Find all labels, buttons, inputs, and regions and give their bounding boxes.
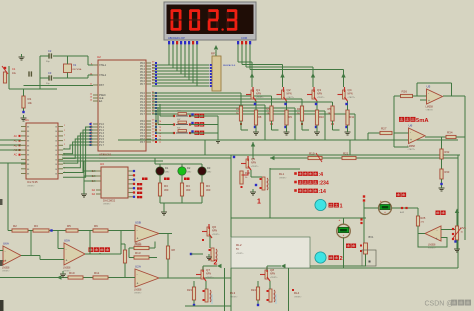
svg-text:<TEXT>: <TEXT> [251,165,259,168]
svg-text:NPN: NPN [317,93,322,96]
svg-text:X1: X1 [73,63,77,67]
svg-text:-: - [410,130,411,134]
svg-text:IN: IN [3,260,6,263]
svg-text:Q5: Q5 [251,157,255,161]
svg-text:R8: R8 [172,248,176,252]
svg-text:U2: U2 [97,55,101,59]
svg-text:R26: R26 [402,90,408,94]
svg-text:2: 2 [64,144,65,146]
svg-text:R24: R24 [251,288,256,292]
svg-text:ICL7135: ICL7135 [27,180,38,184]
svg-text:R19: R19 [309,152,315,156]
svg-text:LM358: LM358 [2,267,10,270]
svg-text:<TEXT>: <TEXT> [2,270,10,273]
svg-text:LM358: LM358 [408,145,416,148]
svg-text:U2A: U2A [135,265,141,269]
svg-text:<TEXT>: <TEXT> [27,185,35,188]
svg-text:2: 2 [64,130,65,132]
svg-text:U5A: U5A [64,239,70,243]
svg-text:300: 300 [186,188,191,192]
svg-text:RL4: RL4 [294,291,300,295]
svg-text:R8: R8 [258,115,262,119]
svg-text:+: + [137,236,139,240]
svg-text::14: :14 [318,189,326,195]
svg-text:<TEXT>: <TEXT> [287,96,295,99]
svg-text:-: - [436,229,437,233]
svg-text:LED: LED [207,172,212,174]
svg-text:<TEXT>: <TEXT> [230,296,238,299]
svg-text:LED: LED [165,172,170,174]
svg-text:CRYSTAL: CRYSTAL [72,68,83,71]
svg-text:P3.7: P3.7 [140,141,146,144]
svg-text:R3: R3 [164,184,168,188]
svg-text:LED: LED [187,172,192,174]
svg-text::234: :234 [318,181,328,187]
svg-text:U6A: U6A [3,242,9,246]
svg-text:10u: 10u [12,72,17,75]
svg-text:-: - [428,91,429,95]
svg-text:AC: AC [14,135,18,138]
svg-text:R3: R3 [34,224,38,228]
svg-text:NPN: NPN [270,273,275,276]
svg-text:2: 2 [64,125,65,127]
svg-text:R9: R9 [289,115,293,119]
svg-text:<TEXT>: <TEXT> [206,276,214,279]
svg-text:<TEXT>: <TEXT> [134,292,142,295]
svg-text:Q6: Q6 [212,225,216,229]
svg-text:<TEXT>: <TEXT> [256,96,264,99]
svg-text:RESPACK-8: RESPACK-8 [223,64,236,67]
svg-text:RV1: RV1 [461,226,467,230]
svg-text:C1: C1 [12,67,16,71]
svg-text:Q4: Q4 [348,88,352,92]
svg-text:XTAL2: XTAL2 [99,74,107,77]
svg-text:1: 1 [339,204,342,210]
svg-text:-: - [137,228,138,232]
svg-text:SW: SW [177,127,180,129]
svg-text:-: - [66,248,67,252]
svg-text:<TEXT>: <TEXT> [348,96,356,99]
svg-text:NPN: NPN [287,93,292,96]
svg-text:-: - [5,250,6,254]
svg-text:5mA: 5mA [416,118,429,124]
svg-text:R33: R33 [445,170,450,174]
svg-text:<TEXT>: <TEXT> [212,233,220,236]
svg-text:CSDN @: CSDN @ [425,301,454,308]
svg-text:Q7: Q7 [206,268,210,272]
svg-text:<TEXT>: <TEXT> [294,296,302,299]
svg-text:AT89C51: AT89C51 [99,153,112,157]
svg-text:R11: R11 [350,115,355,119]
svg-text:2: 2 [64,135,65,137]
svg-text:2: 2 [339,256,342,262]
svg-text:D3: D3 [207,166,211,170]
svg-text:R12: R12 [135,242,141,246]
svg-text:XTAL1: XTAL1 [99,64,107,67]
svg-text:R6: R6 [94,224,98,228]
svg-text:<TEXT>: <TEXT> [99,157,108,160]
svg-text:<TEXT>: <TEXT> [317,96,325,99]
svg-text:R3: R3 [267,107,271,111]
svg-text:R34: R34 [447,131,453,135]
svg-text:5V: 5V [236,248,239,251]
svg-text:LM358: LM358 [134,289,142,292]
svg-text:SW: SW [177,119,180,121]
svg-text:DA: DA [92,193,96,196]
svg-text:ABCDEFG DP: ABCDEFG DP [168,36,185,40]
svg-text:SW: SW [177,110,180,112]
svg-text:NPN: NPN [212,230,217,233]
svg-text:AC: AC [14,154,18,157]
svg-text:+: + [410,138,412,142]
svg-text:C2: C2 [48,49,52,53]
svg-text:R25: R25 [421,216,426,220]
svg-text:R23: R23 [187,288,192,292]
svg-text:<TEXT>: <TEXT> [236,252,244,255]
svg-text:R10: R10 [69,271,75,275]
svg-text:+: + [436,237,438,241]
svg-text:R21: R21 [343,152,349,156]
svg-text:COM: COM [241,36,247,40]
svg-text:1: 1 [257,199,261,206]
svg-text:<TEXT>: <TEXT> [103,203,111,206]
svg-text:Q1: Q1 [256,88,260,92]
svg-text:P1.7: P1.7 [99,144,105,147]
svg-text:<TEXT>: <TEXT> [426,109,434,112]
svg-text:+: + [137,281,139,285]
svg-text:NPN: NPN [256,93,261,96]
svg-text::4: :4 [318,172,323,178]
svg-text:RL3: RL3 [230,291,236,295]
svg-text:P0.7: P0.7 [140,83,146,86]
svg-text:LM358: LM358 [63,267,71,270]
svg-text:D2: D2 [187,166,191,170]
svg-text:R5: R5 [328,107,332,111]
svg-text:+: + [428,99,430,103]
svg-text:U3: U3 [100,162,104,166]
svg-text:<TEXT>: <TEXT> [270,276,278,279]
svg-text:RL1: RL1 [279,172,285,176]
svg-text:+: + [66,259,68,263]
svg-text:P2.7: P2.7 [140,113,146,116]
svg-text:2: 2 [64,139,65,141]
svg-text:R2: R2 [13,224,17,228]
svg-text:+: + [339,218,341,222]
svg-text:DA: DA [92,189,96,192]
svg-text:R13: R13 [135,251,141,255]
svg-text:RL2: RL2 [236,243,242,247]
svg-text:R2: R2 [236,107,240,111]
svg-text:R10: R10 [319,115,324,119]
svg-text:Q8: Q8 [270,268,274,272]
svg-text:R3: R3 [186,184,190,188]
svg-text:<TEXT>: <TEXT> [279,177,287,180]
svg-text:10k: 10k [28,101,33,105]
svg-text:R5: R5 [67,224,71,228]
svg-text:R3: R3 [206,184,210,188]
svg-text:U5B: U5B [135,221,141,225]
svg-text:RST: RST [99,84,104,87]
svg-text:300: 300 [206,188,211,192]
svg-text:R32: R32 [445,150,450,154]
svg-text:R4: R4 [297,107,301,111]
svg-text:R11: R11 [94,271,100,275]
svg-text:NPN: NPN [348,93,353,96]
svg-text:NPN: NPN [206,273,211,276]
svg-text:EA: EA [99,100,103,103]
svg-text:300: 300 [164,188,169,192]
svg-text:DAC0832: DAC0832 [103,199,116,203]
svg-text:2: 2 [214,260,218,267]
svg-text:U5: U5 [427,85,431,89]
svg-text:D1: D1 [165,166,169,170]
svg-text:U1: U1 [25,118,29,122]
svg-text:LM358: LM358 [426,106,434,109]
svg-text:<TEXT>: <TEXT> [408,148,416,151]
svg-text:Q2: Q2 [287,88,291,92]
svg-text:C3: C3 [48,71,52,75]
svg-text:Q3: Q3 [317,88,321,92]
svg-text:R1: R1 [28,97,32,101]
svg-text:LM358: LM358 [428,244,436,247]
svg-text:-: - [137,272,138,276]
svg-text:U6: U6 [409,124,413,128]
svg-text:NPN: NPN [251,162,256,165]
svg-text:BV1: BV1 [369,235,374,239]
svg-text:R27: R27 [381,127,387,131]
